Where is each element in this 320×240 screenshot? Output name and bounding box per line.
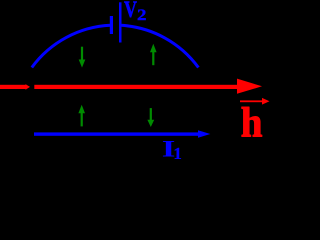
current I1 arrowhead	[198, 130, 210, 137]
red ground-plane arrowhead (large)	[237, 79, 262, 94]
battery V2 positive plate (long)	[119, 2, 122, 42]
svg-text:2: 2	[137, 5, 146, 23]
field arrow up (lower left, green)	[78, 105, 85, 127]
vector h arrow (red, above h)	[240, 98, 270, 105]
label I1	[162, 137, 182, 163]
red ground-plane arrow: long segment	[34, 85, 238, 89]
svg-text:h: h	[241, 99, 263, 146]
svg-text:1: 1	[174, 144, 182, 159]
field arrow down (lower right, green)	[147, 108, 154, 127]
battery V2 negative plate (short)	[110, 16, 113, 34]
red ground-plane arrow: short left segment with small arrowhead	[0, 84, 30, 90]
svg-text:V: V	[124, 0, 137, 23]
wire: blue semicircular loop left branch	[32, 25, 111, 67]
wire: blue semicircular loop right branch	[121, 25, 198, 67]
field arrow up (upper right, green)	[150, 44, 157, 65]
current I1 line (blue)	[34, 132, 198, 135]
label V2	[124, 0, 146, 24]
field arrow down (upper left, green)	[79, 47, 86, 68]
